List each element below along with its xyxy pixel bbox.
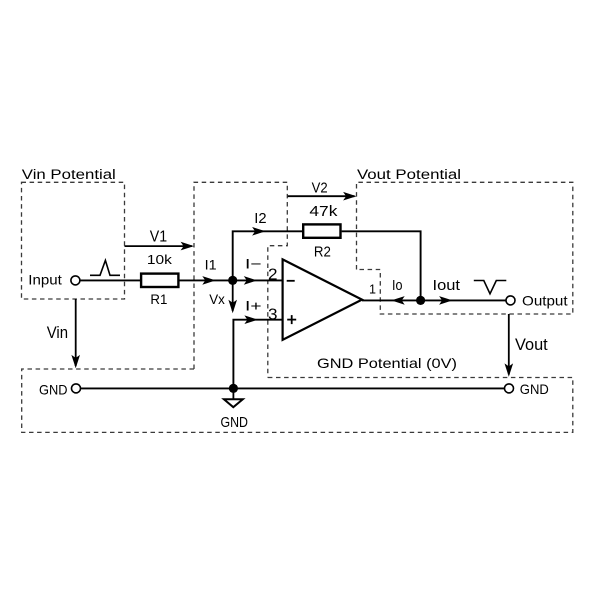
resistor R2 <box>303 224 340 237</box>
current arrow Io <box>391 296 404 305</box>
svg-text:Vx: Vx <box>209 291 225 307</box>
potential-region dashed boundaries <box>22 182 573 432</box>
node A junction dot <box>228 276 237 285</box>
GND Potential region box <box>22 369 573 432</box>
Input terminal <box>71 276 80 285</box>
measurement arrow Vin <box>71 299 80 368</box>
wire op-amp pin 3 down to ground node <box>233 320 282 389</box>
input pulse symbol <box>90 260 120 275</box>
wire op-amp output to output terminal <box>362 299 506 301</box>
wire node A up and left feedback segment to R2 <box>233 231 302 280</box>
svg-text:Iout: Iout <box>433 278 461 294</box>
wire R2 right feedback segment down to output node <box>342 231 421 300</box>
ground symbol <box>224 388 243 407</box>
svg-text:47k: 47k <box>309 204 338 220</box>
GND right terminal <box>505 384 514 393</box>
measurement arrow V2 <box>288 192 357 201</box>
svg-text:GND Potential (0V): GND Potential (0V) <box>317 355 457 371</box>
Vout Potential region box <box>357 182 573 314</box>
measurement arrow Vx <box>228 280 237 313</box>
resistor R1 <box>141 274 178 287</box>
svg-text:Vin Potential: Vin Potential <box>22 167 116 182</box>
output inverted pulse symbol <box>474 281 507 294</box>
wire ground rail <box>80 387 504 389</box>
svg-text:Vin: Vin <box>47 323 68 342</box>
current arrow Iout <box>439 296 452 305</box>
GND Potential middle-column boundary <box>194 182 287 377</box>
output node junction dot <box>416 296 425 305</box>
svg-text:10k: 10k <box>147 252 173 267</box>
current arrow I- <box>244 276 257 285</box>
svg-text:2: 2 <box>268 266 278 283</box>
svg-text:Output: Output <box>522 293 568 309</box>
svg-text:I2: I2 <box>254 211 266 227</box>
svg-text:V1: V1 <box>150 228 167 245</box>
measurement arrow Vout <box>505 314 514 377</box>
svg-text:I1: I1 <box>205 256 217 272</box>
svg-text:I−: I− <box>245 255 262 271</box>
Output terminal <box>506 296 515 305</box>
GND left terminal <box>72 384 81 393</box>
svg-text:1: 1 <box>369 282 376 297</box>
svg-text:Vout Potential: Vout Potential <box>357 167 461 182</box>
op-amp U1 <box>283 259 362 339</box>
svg-text:R2: R2 <box>314 244 331 261</box>
svg-text:GND: GND <box>39 382 68 398</box>
svg-text:R1: R1 <box>150 291 167 307</box>
Vin Potential region box <box>22 182 125 299</box>
svg-text:I+: I+ <box>245 298 262 314</box>
wires <box>80 231 506 388</box>
current arrow I1 <box>202 276 215 285</box>
svg-text:Io: Io <box>392 278 403 294</box>
current arrow I+ <box>244 315 257 324</box>
svg-text:3: 3 <box>268 307 278 324</box>
ground node junction dot <box>229 384 238 393</box>
current arrow I2 <box>252 227 265 236</box>
wire R1 to op-amp pin 2 through node A <box>180 279 283 281</box>
svg-text:GND: GND <box>221 415 249 431</box>
wire input terminal to R1 <box>80 279 140 281</box>
svg-text:V2: V2 <box>312 179 328 196</box>
svg-text:GND: GND <box>520 381 549 397</box>
svg-text:Input: Input <box>28 272 62 288</box>
svg-text:Vout: Vout <box>515 335 548 354</box>
measurement arrow V1 <box>125 242 195 251</box>
